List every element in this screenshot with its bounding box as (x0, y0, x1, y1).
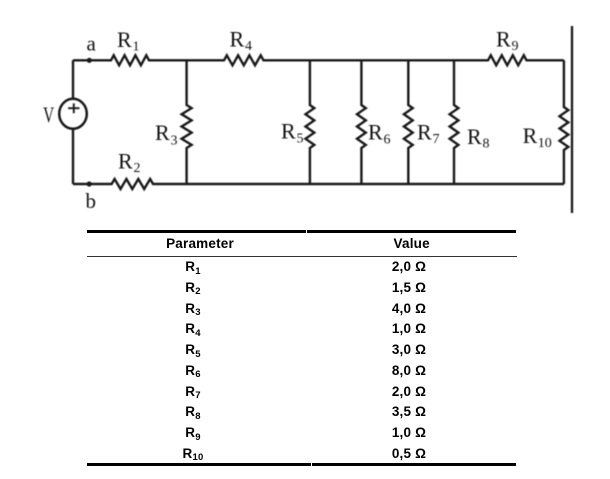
svg-text:8: 8 (483, 136, 490, 151)
svg-text:7: 7 (433, 132, 440, 147)
svg-text:R: R (417, 120, 432, 145)
svg-text:4: 4 (245, 39, 252, 54)
table header Value (306, 234, 517, 255)
resistor R6 branch (357, 60, 366, 184)
svg-text:10: 10 (538, 136, 552, 151)
plus sign of source (68, 103, 79, 113)
svg-text:R: R (523, 123, 538, 148)
svg-text:R: R (117, 27, 132, 52)
svg-text:R: R (467, 124, 482, 149)
table header Parameter (87, 234, 313, 255)
resistor R8 branch (450, 60, 459, 184)
svg-text:2: 2 (134, 161, 141, 176)
resistor R10 on right wire (560, 60, 569, 184)
svg-text:a: a (87, 31, 97, 55)
svg-text:R: R (281, 119, 296, 144)
svg-text:b: b (86, 189, 97, 213)
wire left + source leads (72, 60, 74, 184)
table bottom rule (87, 463, 311, 466)
resistor R3 branch (182, 60, 192, 184)
resistor R5 branch (306, 60, 315, 184)
node b junction dot (87, 181, 92, 186)
svg-text:9: 9 (512, 39, 519, 54)
voltage source V circle (59, 99, 87, 129)
svg-text:3: 3 (171, 133, 178, 148)
svg-text:R: R (496, 27, 511, 52)
table rows (87, 257, 299, 280)
svg-text:R: R (230, 26, 245, 51)
svg-text:R: R (155, 120, 170, 145)
svg-text:1: 1 (133, 40, 140, 55)
wire bottom with resistor R2 (73, 179, 564, 189)
svg-text:R: R (118, 149, 133, 174)
node a junction dot (87, 58, 92, 63)
svg-text:5: 5 (297, 132, 304, 147)
wire top with resistor R1, resistor R4, resistor R9 (73, 55, 564, 65)
right border line (571, 26, 573, 213)
svg-text:6: 6 (384, 133, 391, 148)
resistor R7 branch (404, 60, 413, 184)
header underline (87, 256, 517, 257)
svg-text:R: R (368, 120, 383, 145)
svg-text:V: V (43, 102, 54, 127)
table top rule (87, 230, 306, 233)
